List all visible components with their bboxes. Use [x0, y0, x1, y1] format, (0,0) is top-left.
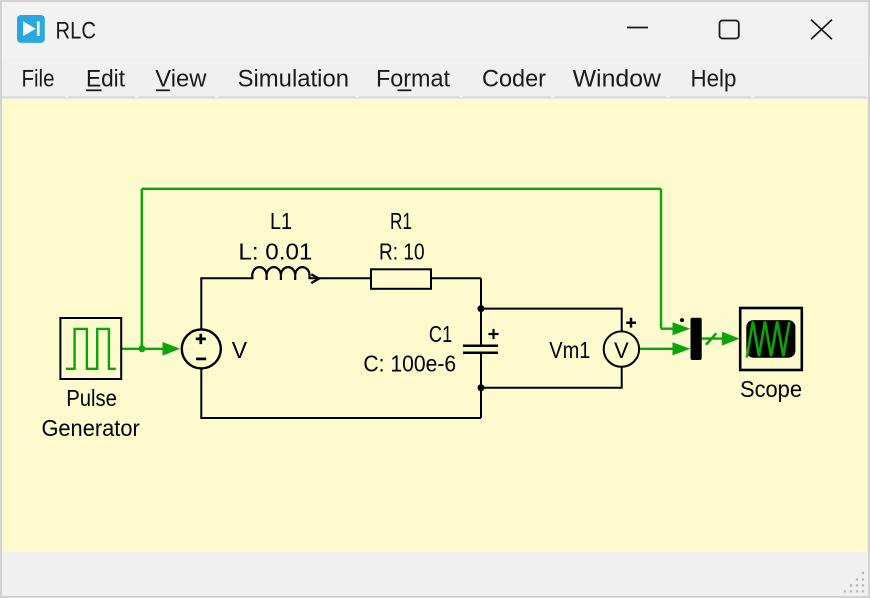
- wire bottom rail: [200, 417, 481, 419]
- wire down to mux input 1: [660, 189, 662, 329]
- menubar bottom separator ticks: [2, 96, 866, 98]
- arrowhead mux input 1: [673, 322, 691, 335]
- svg-text:C: 100e-6: C: 100e-6: [363, 350, 456, 376]
- arrowhead into voltage source: [163, 342, 181, 356]
- wire voltmeter top branch: [481, 309, 622, 332]
- signal mux: [691, 318, 702, 360]
- svg-text:Generator: Generator: [41, 415, 140, 441]
- wire mux output to scope: [702, 337, 723, 339]
- wire coil to resistor: [309, 277, 372, 279]
- svg-text:Coder: Coder: [482, 66, 546, 93]
- wire top horizontal: [142, 188, 661, 190]
- wire top rail left: [200, 277, 253, 279]
- svg-text:Help: Help: [691, 66, 737, 93]
- inductor L1: [252, 267, 318, 283]
- svg-text:Vm1: Vm1: [549, 337, 590, 363]
- svg-text:R1: R1: [390, 208, 412, 234]
- capacitor polarity plus: [488, 329, 498, 339]
- pulse generator block: [60, 318, 121, 379]
- svg-text:Edit: Edit: [86, 66, 125, 93]
- voltage source V: [182, 329, 221, 368]
- close button: [811, 20, 832, 40]
- svg-text:L: 0.01: L: 0.01: [238, 238, 312, 264]
- svg-text:C1: C1: [429, 321, 452, 347]
- svg-text:RLC: RLC: [56, 18, 97, 45]
- scope block: [740, 308, 802, 370]
- junction node capacitor top: [478, 305, 485, 312]
- minimize button: [627, 27, 648, 29]
- voltmeter Vm1: [604, 318, 639, 367]
- svg-text:L1: L1: [270, 208, 292, 234]
- svg-text:Simulation: Simulation: [238, 66, 349, 93]
- junction node capacitor bottom: [478, 384, 485, 391]
- bus width slash: [706, 333, 716, 345]
- wire V source top: [200, 278, 202, 329]
- wire branch up from junction: [141, 189, 143, 349]
- wire pulse generator output: [122, 348, 166, 350]
- wire capacitor to bottom rail: [480, 353, 482, 418]
- svg-text:R: 10: R: 10: [379, 238, 425, 264]
- svg-text:Format: Format: [376, 66, 450, 93]
- svg-text:Pulse: Pulse: [66, 385, 117, 411]
- svg-text:V: V: [232, 337, 248, 363]
- wire down to capacitor: [480, 278, 482, 346]
- arrowhead into scope: [722, 332, 740, 346]
- svg-text:Scope: Scope: [740, 376, 802, 402]
- svg-text:View: View: [155, 66, 207, 93]
- wire voltmeter bottom branch: [481, 366, 622, 388]
- svg-text:V: V: [614, 338, 629, 363]
- svg-text:Window: Window: [573, 66, 662, 93]
- mux marker dot: [680, 318, 684, 322]
- junction dot on green wire: [139, 345, 146, 352]
- wire resistor to corner: [431, 277, 481, 279]
- maximize button: [720, 21, 739, 39]
- app icon: [17, 15, 45, 43]
- wire voltmeter output to mux input 2: [639, 348, 674, 350]
- wire into mux input 1: [661, 328, 674, 330]
- arrowhead mux input 2: [673, 342, 691, 355]
- status bar resize grip: [844, 572, 864, 593]
- resistor R1: [371, 269, 431, 289]
- wire V source bottom: [200, 368, 202, 418]
- svg-text:File: File: [22, 66, 55, 93]
- capacitor C1: [463, 346, 498, 353]
